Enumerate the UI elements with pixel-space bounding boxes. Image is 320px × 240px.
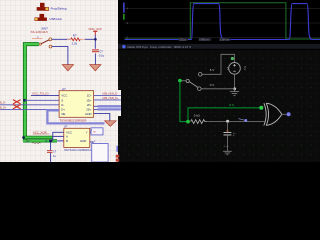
- probe blue XOR output: [287, 112, 291, 116]
- svg-text:0.980 ms: 0.980 ms: [199, 39, 209, 41]
- svg-text:TS3USB221DRSER: TS3USB221DRSER: [59, 118, 87, 122]
- svg-text:VDD_3V3: VDD_3V3: [88, 27, 102, 31]
- svg-text:USB Hub: USB Hub: [49, 17, 62, 21]
- svg-text:B_D+: B_D+: [0, 106, 7, 109]
- svg-text:192 µs: 192 µs: [179, 39, 187, 41]
- wire GND pin U2: [90, 142, 93, 144]
- wire junction to capacitor: [227, 122, 229, 132]
- svg-text:USB_HUB_D-: USB_HUB_D-: [102, 93, 118, 96]
- svg-text:3: 3: [94, 141, 96, 143]
- scope channel B marker: [123, 14, 125, 20]
- probe green XOR input A: [259, 106, 263, 110]
- junction green: [186, 120, 190, 124]
- wire XOR output: [282, 113, 287, 115]
- scope channel A marker: [123, 3, 125, 13]
- red marks bottom edge: [116, 155, 119, 162]
- junction on green wire bottom: [22, 136, 25, 139]
- junction on green wire: [23, 99, 26, 102]
- svg-text:VCC_XOR: VCC_XOR: [33, 130, 47, 134]
- svg-text:0 V: 0 V: [229, 103, 234, 107]
- scope status bar: [118, 44, 320, 49]
- resistor R?: [67, 38, 85, 41]
- svg-text:2.2k: 2.2k: [72, 42, 78, 46]
- capacitor C?: [92, 49, 99, 53]
- wire S to U1: [25, 99, 60, 101]
- svg-text:5 kΩ: 5 kΩ: [194, 113, 201, 117]
- wire green net: [180, 82, 260, 122]
- wire switch pin3 to ground: [52, 47, 68, 65]
- wire D+ from edge to U1: [0, 108, 59, 110]
- wire green VCC net: [23, 44, 64, 141]
- wire switch pin2 to resistor: [52, 38, 71, 40]
- scope trace green channel B: [125, 3, 320, 39]
- port box 2: [92, 144, 108, 163]
- capacitor C1: [224, 131, 232, 152]
- wire resistor to XOR input B: [207, 121, 265, 123]
- probe green on V1: [231, 57, 234, 60]
- source V1 5V: [226, 63, 247, 75]
- switch SW? pin 1 stub: [32, 38, 42, 40]
- svg-text:OE: OE: [61, 112, 65, 116]
- thick blue wire 2D-: [94, 105, 98, 107]
- wire 5V loop: [202, 54, 235, 74]
- svg-text:R?: R?: [73, 34, 77, 38]
- junction node: [233, 87, 236, 90]
- svg-text:GND: GND: [85, 112, 91, 116]
- svg-text:∼∼: ∼∼: [223, 145, 229, 149]
- junction node: [94, 38, 97, 41]
- IC U? SN74AHC1G86: [64, 125, 90, 148]
- wire switch throw 0V: [201, 88, 235, 90]
- svg-text:VCC_TI3_IO: VCC_TI3_IO: [32, 92, 49, 96]
- svg-text:GND: GND: [80, 139, 86, 143]
- junction node RC: [226, 120, 229, 123]
- wire 1D+ to edge: [94, 99, 121, 101]
- wire VDD to junction: [94, 35, 96, 49]
- sheet symbol USB Hub: [35, 14, 47, 21]
- wire mark at edge: [116, 146, 118, 152]
- scope gridlines: [124, 9, 320, 38]
- svg-text:D-: D-: [61, 103, 64, 107]
- power port VDD_3V3: [88, 27, 102, 36]
- ground GND1: [62, 65, 73, 71]
- svg-text:0.1u: 0.1u: [99, 54, 105, 58]
- wire VCC to U1: [31, 95, 59, 97]
- svg-text:1u: 1u: [53, 155, 56, 158]
- svg-text:0 V: 0 V: [210, 83, 214, 87]
- svg-text:B: B: [66, 139, 68, 143]
- svg-text:SN74AHC1G86DRLR: SN74AHC1G86DRLR: [64, 148, 92, 152]
- no-ERC marker X2: [13, 105, 21, 109]
- svg-text:A: A: [66, 135, 68, 139]
- ground GND2: [90, 65, 101, 71]
- svg-text:VCC: VCC: [61, 94, 67, 98]
- svg-text:5 V: 5 V: [210, 68, 214, 72]
- wire VCC jog to U2: [53, 132, 64, 141]
- probe purple input B: [239, 119, 248, 122]
- svg-text:2D-: 2D-: [87, 103, 92, 107]
- svg-text:U?: U?: [64, 125, 68, 129]
- svg-text:5 V: 5 V: [243, 66, 247, 70]
- wire capacitor to ground: [94, 54, 96, 65]
- switch SW? pin circles and blade: [39, 38, 52, 48]
- wire Y output: [90, 131, 91, 133]
- svg-text:V1: V1: [226, 67, 230, 71]
- sheet symbol Prog/Debug: [37, 3, 49, 11]
- wire A to U2: [53, 135, 64, 137]
- junction green B node: [49, 139, 52, 142]
- wire D- from edge to U1: [0, 104, 59, 106]
- IC U? TS3USB221DRSER: [59, 87, 94, 117]
- svg-text:1.064 ms: 1.064 ms: [220, 39, 230, 41]
- svg-text:SS-12D10L5: SS-12D10L5: [31, 30, 49, 34]
- probe green switch common: [178, 79, 182, 83]
- capacitor C? xor: [47, 142, 52, 162]
- thick blue wire 2D+: [94, 108, 98, 110]
- resistor R1 5k: [191, 120, 207, 124]
- svg-text:U?: U?: [62, 87, 66, 91]
- switch S1: [182, 73, 203, 91]
- svg-text:Prog/Debug: Prog/Debug: [51, 6, 67, 10]
- port XOR out: [91, 128, 103, 135]
- ground GND3: [105, 121, 117, 127]
- svg-text:Y: Y: [86, 131, 88, 135]
- svg-text:1D-: 1D-: [87, 94, 92, 98]
- XOR gate U3: [264, 103, 282, 125]
- thick blue wire OE loop: [47, 110, 104, 123]
- scope time ruler labels: [179, 38, 231, 42]
- net label VCC_XOR: [33, 130, 50, 134]
- svg-text:1n: 1n: [233, 133, 236, 135]
- ground G1: [230, 89, 239, 96]
- scope trace blue channel A: [125, 4, 320, 40]
- svg-text:B_D-: B_D-: [0, 101, 6, 104]
- svg-text:USB_HUB_D+: USB_HUB_D+: [102, 97, 119, 100]
- svg-text:F: F: [233, 136, 235, 138]
- svg-text:1D+: 1D+: [86, 99, 92, 103]
- wire 1D- to edge: [94, 95, 121, 97]
- ground G2: [223, 151, 232, 154]
- scope axis labels: [127, 7, 129, 40]
- svg-text:S: S: [61, 99, 63, 103]
- wire GND pin: [94, 113, 110, 120]
- svg-text:C?: C?: [53, 151, 57, 154]
- wire V1 minus down: [234, 74, 236, 89]
- svg-text:Delta: 976.6 µs Freq: 1.024: Delta: 976.6 µs Freq: 1.024 kHz RMS: 2.4…: [128, 45, 192, 49]
- wire resistor to junction: [85, 38, 96, 40]
- no-ERC marker X1: [13, 100, 21, 104]
